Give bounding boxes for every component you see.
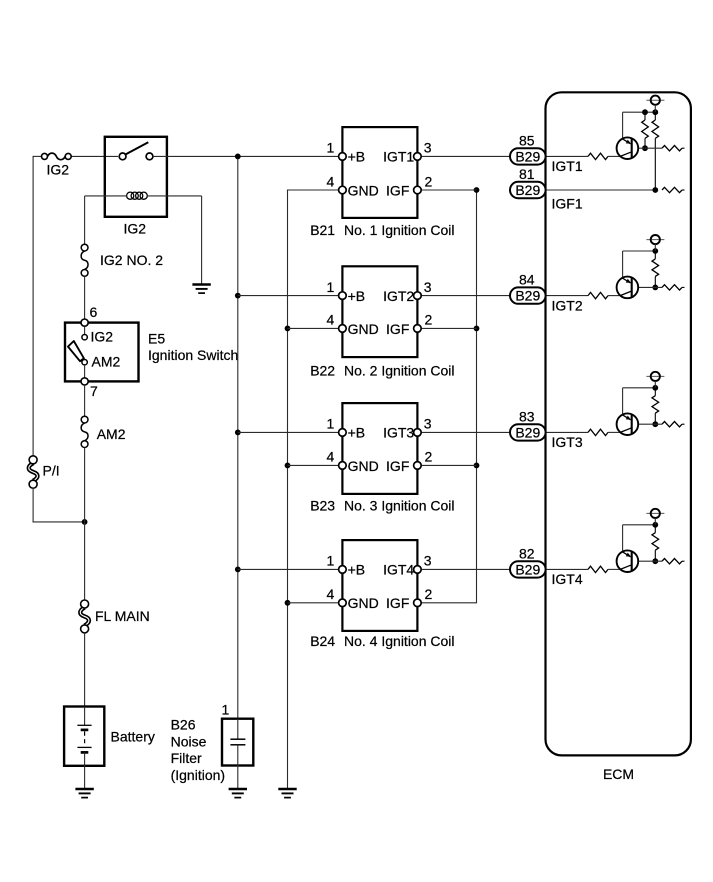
wire relay coil to ground [201, 196, 203, 285]
svg-text:(Ignition): (Ignition) [171, 767, 225, 783]
svg-text:84: 84 [519, 272, 535, 288]
relay IG2 switch contact right [146, 153, 153, 160]
coil B23 pin 2 terminal [414, 462, 422, 470]
svg-text:GND: GND [348, 595, 379, 611]
ignition switch contact AM2 [82, 360, 87, 365]
capacitor plate top [230, 738, 245, 740]
power circle IGT2 supply [646, 239, 664, 241]
junction GND bus row 3 [285, 463, 291, 469]
coil B24 pin 3 terminal [414, 566, 422, 574]
ignition switch pin 7 terminal [81, 378, 88, 385]
wire coil B22 pin 4 to GND bus [288, 327, 339, 329]
junction +B bus row 3 [235, 430, 241, 436]
relay IG2 coil inductor [127, 192, 148, 199]
svg-text:IGT1: IGT1 [552, 158, 583, 174]
svg-text:4: 4 [327, 449, 335, 465]
wire far-left vertical down to P/I [32, 156, 34, 456]
wire pull-up top horizontal [623, 250, 656, 252]
wire noise filter bottom lead [237, 745, 239, 766]
resistor collector load IGT3 [662, 422, 682, 427]
coil B21 pin 1 terminal [339, 153, 347, 161]
wire +B bus vertical [237, 156, 239, 718]
transistor Q1 [617, 137, 639, 159]
svg-text:B29: B29 [515, 561, 540, 577]
battery box [64, 707, 104, 766]
svg-text:ECM: ECM [603, 766, 634, 782]
svg-text:3: 3 [424, 553, 432, 569]
wire P/I down to corner [32, 488, 34, 523]
wire corner to junction on main vertical [33, 521, 85, 523]
wire power circle to pull-up rail [654, 381, 656, 388]
coil B23 pin 1 terminal [339, 429, 347, 437]
connector B29 IGT2 oval [510, 287, 546, 303]
svg-text:IGT2: IGT2 [383, 288, 414, 304]
power circle IGT1 supply [646, 99, 664, 101]
svg-text:No. 1 Ignition Coil: No. 1 Ignition Coil [344, 222, 455, 238]
svg-text:IGF: IGF [386, 595, 409, 611]
svg-text:1: 1 [327, 140, 335, 156]
wire coil B22 IGT2 pin 3 lead [421, 295, 510, 297]
transistor Q3 collector output wire [632, 423, 662, 425]
battery negative plate 1 [81, 729, 89, 732]
resistor R feedback IGF1 [654, 112, 656, 120]
power circle IGT3 supply [646, 375, 664, 377]
svg-text:IGT4: IGT4 [383, 562, 414, 578]
connector B29 IGT4 oval [510, 561, 546, 577]
ground GND bus [278, 789, 296, 798]
ignition switch E5 box [65, 323, 139, 382]
wire coil B23 IGT3 pin 3 lead [421, 431, 510, 433]
transistor Q4 [617, 550, 639, 572]
wire coil B24 pin 4 to GND bus [288, 602, 339, 604]
junction pull-up left resistor [642, 109, 648, 115]
resistor collector load IGT1 [662, 146, 682, 151]
battery positive plate 1 [77, 724, 91, 726]
wire B29 IGT4 into ECM to base resistor [546, 568, 588, 570]
junction GND bus row 4 [285, 600, 291, 606]
ignition coil B21 box [342, 127, 417, 218]
svg-text:IGF: IGF [386, 182, 409, 198]
battery positive plate 2 [77, 746, 91, 748]
wire coil B21 IGT1 pin 3 lead [421, 155, 510, 157]
capacitor plate bottom [230, 744, 245, 746]
resistor IGF1 load [662, 187, 682, 192]
wire base resistor to transistor Q3 [608, 431, 621, 433]
wire relay switch to +B bus and coil B21 pin 1 [153, 155, 339, 157]
wire top-left horizontal to fuse IG2 [33, 155, 42, 157]
fuse IG2 [42, 153, 72, 160]
transistor Q4 collector wire to pull-up [622, 525, 624, 552]
svg-text:IG2 NO. 2: IG2 NO. 2 [100, 252, 163, 268]
resistor collector load IGT4 [662, 559, 682, 564]
ground battery [75, 789, 93, 798]
junction IGF bus row 2 [474, 326, 480, 332]
svg-text:6: 6 [90, 304, 98, 320]
wire FL MAIN to battery [84, 633, 86, 707]
wire ignition switch pin 7 to fuse AM2 [84, 385, 86, 416]
wire coil B23 IGF pin 2 to IGF bus [421, 464, 476, 466]
svg-text:No. 4 Ignition Coil: No. 4 Ignition Coil [344, 633, 455, 649]
svg-text:IG2: IG2 [91, 329, 114, 345]
wire +B bus to coil B24 pin 1 [238, 568, 339, 570]
svg-text:2: 2 [425, 312, 433, 328]
svg-text:IGT4: IGT4 [552, 571, 583, 587]
junction collector line row 3 [652, 421, 658, 427]
svg-text:B24: B24 [310, 633, 335, 649]
transistor Q4 collector output wire [632, 560, 662, 562]
coil B21 pin 4 terminal [339, 186, 347, 194]
coil B24 pin 2 terminal [414, 599, 422, 607]
coil B21 pin 2 terminal [414, 186, 422, 194]
wire coil B21 pin 4 to GND bus [287, 189, 338, 191]
ignition coil B24 box [342, 540, 417, 631]
fuse AM2 [81, 416, 88, 447]
svg-text:IGF: IGF [386, 321, 409, 337]
wire B29 IGT2 into ECM to base resistor [546, 295, 588, 297]
wire battery bottom lead [84, 752, 86, 765]
junction collector line row 4 [652, 558, 658, 564]
svg-text:81: 81 [519, 166, 535, 182]
wire power circle to pull-up rail [654, 105, 656, 112]
wire AM2 contact to pin 7 [84, 365, 86, 378]
junction collector line row 2 [652, 285, 658, 291]
ECM box [546, 92, 691, 755]
svg-text:GND: GND [348, 458, 379, 474]
svg-text:Battery: Battery [111, 728, 155, 744]
ground relay coil [192, 285, 210, 294]
wire pull-up top horizontal [623, 387, 656, 389]
coil B22 pin 1 terminal [339, 292, 347, 300]
junction pull-up rail [652, 385, 658, 391]
svg-text:1: 1 [327, 279, 335, 295]
coil B24 pin 4 terminal [339, 599, 347, 607]
svg-text:AM2: AM2 [97, 426, 126, 442]
junction GND bus row 2 [285, 326, 291, 332]
wire B29 IGT3 into ECM to base resistor [546, 431, 588, 433]
wire base resistor to transistor Q1 [608, 155, 621, 157]
svg-text:2: 2 [425, 173, 433, 189]
fusible link P/I [29, 456, 38, 488]
svg-text:IG2: IG2 [124, 220, 147, 236]
battery negative plate 2 [81, 751, 89, 754]
wire fuse IG2 NO.2 to ignition switch pin 6 [84, 276, 86, 319]
wire noise filter top lead [237, 719, 239, 740]
svg-text:B29: B29 [515, 148, 540, 164]
resistor IGT2 base [588, 292, 608, 298]
wire battery top lead [84, 707, 86, 726]
junction +B bus row 1 [235, 154, 241, 160]
svg-text:No. 3 Ignition Coil: No. 3 Ignition Coil [344, 498, 455, 514]
resistor R pull-up IGT2 [654, 251, 656, 259]
svg-text:3: 3 [424, 140, 432, 156]
svg-text:82: 82 [519, 545, 535, 561]
wire B29 IGT1 into ECM to base resistor [546, 155, 588, 157]
fuse IG2 NO. 2 [81, 244, 88, 276]
transistor Q2 collector output wire [632, 286, 662, 288]
svg-text:E5: E5 [148, 330, 165, 346]
svg-text:Noise: Noise [171, 733, 207, 749]
svg-text:85: 85 [519, 132, 535, 148]
svg-text:IGF: IGF [386, 458, 409, 474]
resistor R pull-up IGT4 [654, 525, 656, 533]
ignition switch lever [68, 341, 84, 361]
svg-text:3: 3 [424, 279, 432, 295]
transistor Q1 collector wire to pull-up [622, 112, 624, 138]
wire relay coil right lead [147, 195, 202, 197]
wire pull-up top horizontal [623, 524, 656, 526]
connector B29 IGT1 oval [510, 148, 546, 164]
svg-text:2: 2 [425, 449, 433, 465]
svg-text:IGT1: IGT1 [383, 149, 414, 165]
wire fuse IG2 to relay [71, 155, 118, 157]
coil B23 pin 4 terminal [339, 462, 347, 470]
ignition coil B23 box [342, 403, 417, 494]
wire battery to ground [84, 766, 86, 789]
ground noise filter [229, 789, 247, 798]
wire noise filter to ground [237, 766, 239, 790]
junction +B bus row 2 [235, 293, 241, 299]
junction IGF bus row 3 [474, 463, 480, 469]
wire power circle to pull-up rail [654, 518, 656, 525]
wire coil B23 pin 4 to GND bus [288, 464, 339, 466]
svg-text:+B: +B [348, 562, 366, 578]
ignition coil B22 box [342, 266, 417, 357]
wire GND bus vertical [287, 190, 289, 789]
wire coil B24 IGT4 pin 3 lead [421, 568, 510, 570]
wire fuse AM2 down to fusible link FL MAIN [84, 448, 86, 601]
wire coil B24 IGF pin 2 corner to IGF bus [421, 602, 477, 604]
transistor Q2 collector wire to pull-up [622, 251, 624, 278]
wire power circle to pull-up rail [654, 244, 656, 251]
svg-text:B22: B22 [310, 363, 335, 379]
svg-text:1: 1 [327, 416, 335, 432]
svg-text:IGT3: IGT3 [552, 434, 583, 450]
junction IGF1 feedback node [652, 187, 658, 193]
resistor R pull-up IGT3 [654, 388, 656, 396]
relay IG2 switch contact left [119, 153, 126, 160]
connector B29 IGT3 oval [510, 424, 546, 440]
transistor Q1 collector output wire [632, 147, 662, 149]
resistor collector load IGT2 [662, 285, 682, 290]
battery dashed cell link [84, 732, 86, 744]
wire coil B21 IGF pin 2 to IGF bus [421, 189, 476, 191]
wire pin 6 to IG2 contact [84, 326, 86, 334]
transistor Q3 collector wire to pull-up [622, 388, 624, 415]
wire +B bus to coil B22 pin 1 [238, 295, 339, 297]
svg-text:GND: GND [348, 182, 379, 198]
svg-text:1: 1 [327, 553, 335, 569]
svg-text:3: 3 [424, 416, 432, 432]
svg-text:4: 4 [327, 586, 335, 602]
junction pull-up right resistor [652, 109, 658, 115]
junction main vertical / P-I branch [82, 519, 88, 525]
relay IG2 box [105, 137, 167, 217]
svg-text:Ignition Switch: Ignition Switch [148, 347, 238, 363]
wire +B bus to coil B23 pin 1 [238, 431, 339, 433]
resistor IGT3 base [588, 429, 608, 435]
junction IGF bus row 1 [474, 187, 480, 193]
svg-text:IGF1: IGF1 [552, 195, 583, 211]
svg-text:+B: +B [348, 149, 366, 165]
svg-text:4: 4 [327, 312, 335, 328]
coil B24 pin 1 terminal [339, 566, 347, 574]
connector B29 IGF1 oval [510, 182, 546, 198]
resistor IGT1 base [588, 153, 608, 159]
junction +B bus row 4 [235, 567, 241, 573]
svg-text:2: 2 [425, 586, 433, 602]
coil B21 pin 3 terminal [414, 153, 422, 161]
svg-text:Filter: Filter [171, 750, 202, 766]
ignition switch pin 6 terminal [81, 319, 88, 326]
svg-text:B29: B29 [515, 182, 540, 198]
wire relay coil left lead [85, 195, 127, 197]
svg-text:4: 4 [327, 173, 335, 189]
svg-text:GND: GND [348, 321, 379, 337]
svg-text:IGT2: IGT2 [552, 297, 583, 313]
svg-text:83: 83 [519, 408, 535, 424]
svg-text:7: 7 [90, 383, 98, 399]
svg-text:AM2: AM2 [92, 354, 121, 370]
fusible link FL MAIN [80, 600, 89, 633]
wire base resistor to transistor Q2 [608, 295, 621, 297]
resistor R pull-up IGT1 [644, 112, 646, 120]
svg-text:B26: B26 [171, 717, 196, 733]
junction pull-up rail [652, 248, 658, 254]
svg-text:No. 2 Ignition Coil: No. 2 Ignition Coil [344, 363, 455, 379]
junction collector line and pull-up resistor [642, 145, 648, 151]
wire IGF bus vertical [476, 190, 478, 603]
wire relay coil corner down to fuse IG2 NO.2 [84, 196, 86, 244]
wire coil B22 IGF pin 2 to IGF bus [421, 327, 476, 329]
transistor Q2 [617, 277, 639, 299]
svg-text:B29: B29 [515, 288, 540, 304]
power circle IGT4 supply [646, 512, 664, 514]
coil B23 pin 3 terminal [414, 429, 422, 437]
svg-text:B29: B29 [515, 424, 540, 440]
coil B22 pin 3 terminal [414, 292, 422, 300]
wire IGF1 from B29 to feedback node [546, 189, 656, 191]
svg-text:B23: B23 [310, 498, 335, 514]
svg-text:+B: +B [348, 425, 366, 441]
coil B22 pin 4 terminal [339, 325, 347, 333]
transistor Q3 [617, 413, 639, 435]
svg-text:IGT3: IGT3 [383, 425, 414, 441]
svg-text:+B: +B [348, 288, 366, 304]
coil B22 pin 2 terminal [414, 325, 422, 333]
junction pull-up rail [652, 522, 658, 528]
svg-text:FL MAIN: FL MAIN [95, 608, 150, 624]
ignition switch contact IG2 [82, 335, 87, 340]
relay IG2 switch blade [126, 142, 148, 154]
wire pull-up top horizontal [623, 111, 656, 113]
noise filter B26 box [222, 719, 253, 766]
wire base resistor to transistor Q4 [608, 568, 621, 570]
svg-text:1: 1 [222, 701, 230, 717]
svg-text:P/I: P/I [43, 463, 60, 479]
svg-text:B21: B21 [310, 222, 335, 238]
svg-text:IG2: IG2 [47, 162, 70, 178]
resistor IGT4 base [588, 566, 608, 572]
